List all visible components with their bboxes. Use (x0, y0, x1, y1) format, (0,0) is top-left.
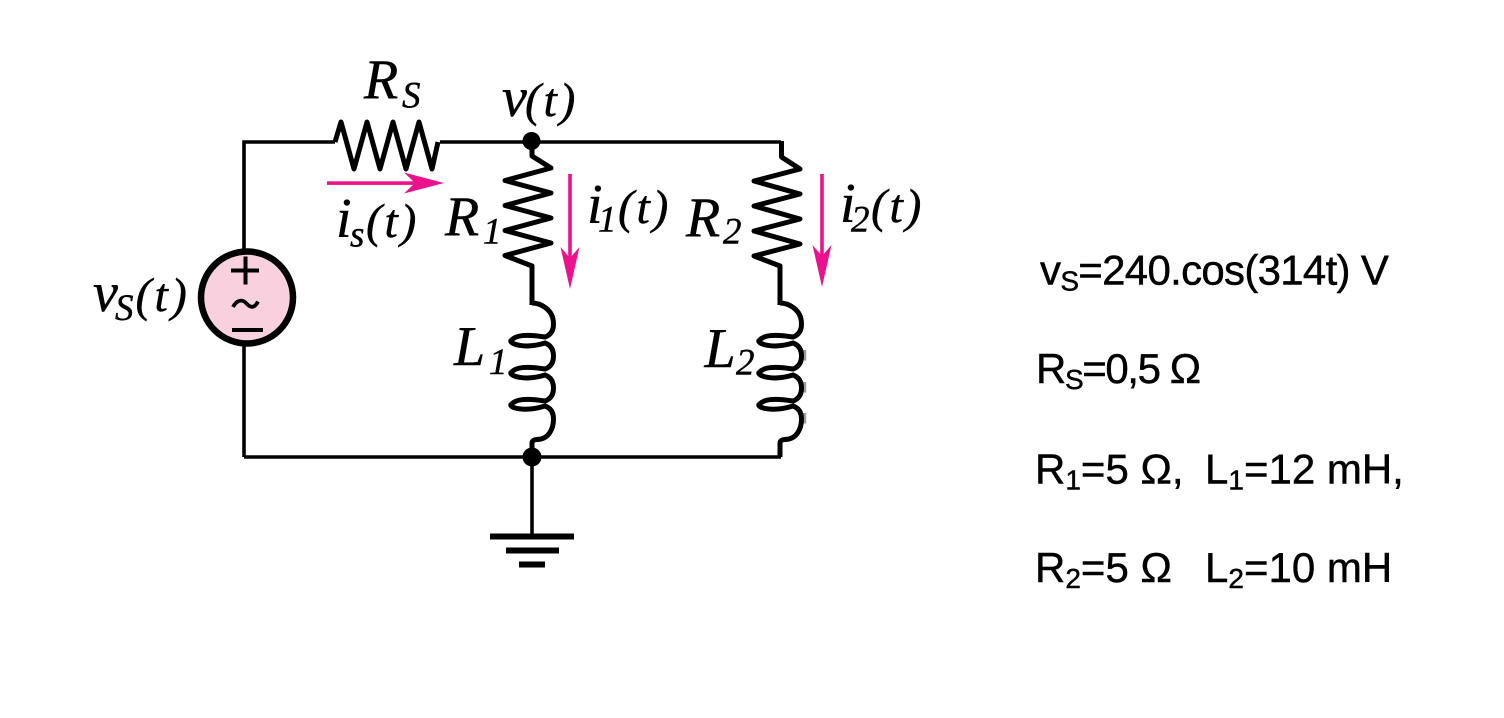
node v(t) dot (523, 132, 541, 150)
svg-text:(t): (t) (136, 269, 190, 322)
resistor R1 (505, 149, 551, 305)
gray dashes beside L2 (803, 350, 807, 424)
wire top (source top corner to right branch) (244, 142, 781, 252)
svg-text:s: s (350, 215, 364, 256)
svg-text:RS=0,5 Ω: RS=0,5 Ω (1036, 345, 1200, 395)
svg-text:R: R (363, 49, 398, 111)
svg-text:vS=240.cos(314t) V: vS=240.cos(314t) V (1040, 247, 1389, 297)
svg-text:1: 1 (489, 342, 508, 383)
svg-text:R1=5 Ω,: R1=5 Ω, (1035, 446, 1184, 496)
svg-text:S: S (115, 288, 134, 329)
inductor L1 (511, 303, 554, 457)
current arrow i1(t) (561, 174, 580, 289)
source VS (sinusoidal voltage source) (201, 252, 293, 344)
wire left bottom (source to bottom rail) (242, 344, 246, 457)
ground (490, 457, 574, 565)
resistor R2 (754, 141, 800, 305)
svg-text:(t): (t) (618, 181, 671, 234)
resistor RS (335, 122, 438, 169)
inductor L2 (759, 303, 802, 457)
svg-text:2: 2 (736, 343, 755, 384)
svg-text:1: 1 (483, 212, 502, 253)
current arrow is(t) (327, 173, 444, 194)
svg-text:R2=5 Ω: R2=5 Ω (1035, 544, 1172, 594)
svg-text:R: R (685, 187, 720, 249)
svg-text:L: L (704, 318, 736, 380)
svg-text:2: 2 (723, 212, 742, 253)
svg-text:1: 1 (598, 200, 617, 241)
wire bottom rail (244, 455, 781, 459)
current arrow i2(t) (813, 174, 832, 287)
svg-text:v: v (502, 67, 527, 129)
svg-text:(t): (t) (525, 74, 578, 127)
svg-text:R: R (444, 186, 479, 248)
svg-text:(t): (t) (871, 180, 924, 233)
svg-text:L: L (453, 316, 485, 378)
node bottom dot (523, 448, 542, 467)
svg-text:(t): (t) (366, 195, 419, 248)
svg-text:2: 2 (851, 200, 870, 241)
svg-text:S: S (402, 76, 421, 117)
